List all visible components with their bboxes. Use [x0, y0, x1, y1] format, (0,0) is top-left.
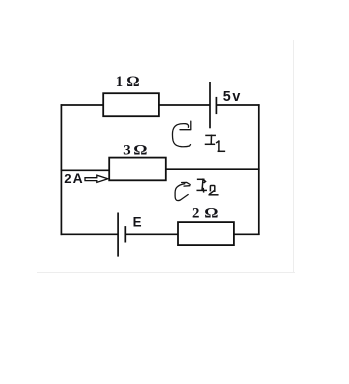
resistor R3 3ohm box: [109, 158, 166, 181]
svg-text:E: E: [133, 214, 142, 229]
svg-text:A: A: [73, 170, 83, 186]
svg-text:5: 5: [223, 89, 231, 105]
svg-text:2: 2: [192, 206, 199, 222]
svg-text:Ω: Ω: [204, 204, 218, 221]
wire R3 to right vertical: [166, 168, 260, 170]
svg-text:2: 2: [64, 171, 71, 186]
scan area faint border: [37, 40, 295, 273]
loop arrow I1: [172, 121, 190, 147]
wire right vertical: [258, 104, 260, 235]
svg-text:Ω: Ω: [126, 74, 139, 90]
wire middle-left horizontal: [61, 169, 110, 171]
svg-text:v: v: [232, 89, 240, 105]
svg-text:1: 1: [116, 74, 123, 90]
resistor R2 2ohm box: [178, 222, 234, 245]
resistor R1 1ohm box: [103, 93, 159, 116]
wire bottom-left horizontal: [61, 233, 119, 235]
wire top-left horizontal: [61, 104, 104, 106]
svg-text:Ω: Ω: [133, 141, 147, 158]
label I2 (hand drawn): [197, 179, 218, 195]
current block arrow: [85, 175, 108, 182]
loop arrow I2: [175, 182, 190, 200]
wire left vertical: [60, 104, 62, 235]
label I1 (hand drawn): [206, 135, 225, 151]
svg-text:3: 3: [123, 143, 130, 159]
wire B1 to top-right corner: [216, 104, 259, 106]
wire R2 to bottom-right corner: [234, 233, 260, 235]
battery B1 long plate: [209, 82, 211, 128]
battery B2 long plate: [117, 213, 119, 257]
wire R1 to battery B1: [159, 104, 210, 106]
wire B2 to R2: [125, 233, 178, 235]
battery B1 short plate: [215, 97, 217, 114]
battery B2 short plate: [124, 226, 126, 242]
